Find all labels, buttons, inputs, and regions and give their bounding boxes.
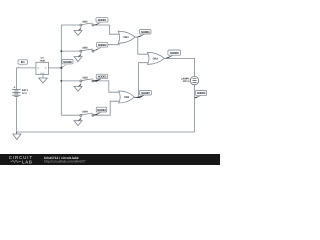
ground at SW2 [74, 52, 82, 61]
wire: vertical bus [60, 25, 62, 115]
wire: branch 3 left segment [61, 80, 80, 82]
junction dot at bus/branch2 [60, 50, 62, 52]
wire: OR3 output to lamp top [163, 58, 194, 76]
switch SW1 [80, 20, 94, 26]
watermark bar [0, 154, 220, 165]
ground at SW1 [74, 26, 82, 35]
wire: branch 1 right segment to OR1 top input [94, 25, 120, 34]
node label NODE7 (OR2 output) [134, 91, 151, 99]
lamp LAMP1 [181, 76, 199, 84]
ground at SW3 [74, 82, 82, 91]
IC U1 7408 [36, 57, 49, 75]
wire: lamp bottom to rail [194, 85, 196, 132]
node label NODE2 (SW2 output) [92, 42, 108, 51]
or-gate OR2 [119, 91, 135, 103]
svg-text:http://circuitlab.com/c8k42f7: http://circuitlab.com/c8k42f7 [44, 160, 86, 164]
wire: branch 3 to OR2 top input [94, 81, 121, 92]
CircuitLab logo [9, 155, 33, 164]
ground at SW4 [74, 116, 82, 125]
switch SW4 [80, 110, 94, 116]
junction dot at bus/branch3 [60, 80, 62, 82]
ground at U1 [39, 78, 48, 83]
node label bus (U1 output) [61, 60, 73, 69]
wire: branch 2 to OR1 bottom input [97, 41, 121, 45]
wire: OR1 output down to OR3 top input [135, 37, 150, 54]
svg-text:LAB: LAB [22, 159, 33, 164]
node label NODE3 (SW3 output) [92, 74, 108, 82]
wire: branch 4 to OR2 bottom input [94, 101, 121, 115]
or-gate OR3 [148, 52, 165, 64]
wire: branch 4 left segment [61, 114, 80, 116]
wire: U1 ground stub [42, 75, 44, 78]
wire: battery top to U1 input [16, 67, 36, 69]
node label Input (battery node) [16, 60, 27, 68]
wire: U1 output to bus [49, 67, 62, 69]
wire: branch 2 left segment [61, 50, 80, 52]
or-gate OR1 [118, 31, 135, 43]
wire: OR2 output up to OR3 bottom input [134, 63, 150, 98]
node label NODE9 (lamp bottom) [194, 91, 206, 99]
node label NODE4 (SW4 output) [92, 107, 107, 115]
ground at battery rail [13, 132, 21, 140]
battery BAT1 label 12V [22, 89, 29, 95]
switch SW3 [80, 76, 94, 82]
wire: battery positive up lead [15, 68, 17, 89]
wire: battery negative down lead [15, 97, 17, 132]
wire: branch 1 left segment [61, 24, 80, 26]
wire: bottom ground rail [16, 131, 194, 133]
battery BAT1 [12, 86, 20, 96]
node label NODE6 (OR1 output) [136, 30, 151, 38]
node label NODE8 (OR3 output) [164, 50, 180, 58]
switch SW2 [80, 47, 94, 53]
node label NODE1 (SW1 output) [93, 18, 108, 26]
junction dot at bus/U1 output [60, 67, 62, 69]
